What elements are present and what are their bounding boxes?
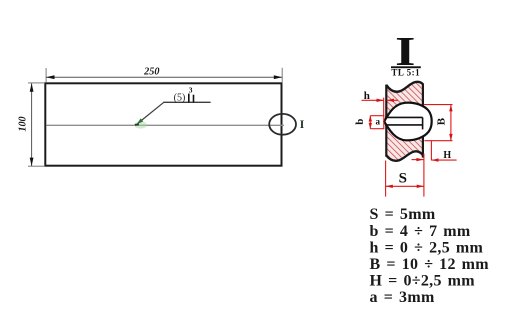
- svg-text:S = 5mm: S = 5mm: [370, 206, 436, 223]
- arrowhead left of 250: [46, 75, 54, 79]
- dimension H extension line: [430, 141, 432, 161]
- dimension S line: [386, 185, 424, 187]
- dimension h arrow right-pointing: [377, 99, 384, 102]
- dimension H arrow left-pointing: [431, 158, 438, 161]
- dimension 100 line: [31, 83, 33, 166]
- weld symbol leader line: [140, 102, 164, 122]
- dimension B arrow top: [449, 105, 452, 112]
- weld symbol bar 1: [188, 94, 190, 103]
- svg-text:a: a: [376, 116, 381, 126]
- plate rectangle: [45, 83, 281, 165]
- arrowhead right of 250: [274, 75, 282, 79]
- dimension b extension right: [383, 116, 385, 129]
- plate left edge: [385, 85, 387, 157]
- arrowhead bottom of 100: [30, 158, 34, 166]
- arrowhead top of 100: [30, 83, 34, 91]
- plate right edge: [422, 84, 424, 158]
- dimension H arrow right-pointing: [416, 158, 423, 161]
- svg-text:B: B: [436, 117, 448, 125]
- svg-text:H: H: [443, 150, 451, 161]
- svg-text:(5): (5): [174, 93, 186, 104]
- dimension H right line: [431, 159, 456, 161]
- dimension b line: [369, 116, 371, 129]
- dimension H left line: [412, 159, 424, 161]
- weld symbol arrow tip dark mark: [135, 123, 139, 126]
- weld symbol reference line: [163, 101, 210, 103]
- hatched plate body (clip between wavy edges): [387, 82, 422, 161]
- dimension b box bottom line: [370, 128, 384, 130]
- weld symbol green halo: [134, 121, 147, 128]
- svg-text:I: I: [300, 119, 305, 131]
- dimension 100 extension line bottom: [28, 165, 44, 167]
- svg-text:250: 250: [143, 67, 159, 78]
- svg-text:S: S: [399, 171, 407, 187]
- svg-text:TL 5:1: TL 5:1: [391, 68, 420, 78]
- plate wavy top edge: [386, 82, 423, 92]
- dimension S left extension: [385, 161, 387, 197]
- weld seam line: [46, 124, 284, 126]
- detail callout circle I: [269, 114, 296, 135]
- dimension 100 extension line top: [28, 82, 44, 84]
- dimension B arrow bottom: [449, 134, 452, 141]
- dimension b arrow up: [369, 116, 372, 122]
- svg-text:3: 3: [189, 86, 193, 95]
- svg-text:b: b: [354, 119, 366, 125]
- dimension 250 extension line right: [281, 68, 283, 82]
- weld symbol green arrowhead: [137, 118, 144, 124]
- dimension h arrow left-pointing: [387, 99, 394, 102]
- nugget slot upper line: [385, 116, 423, 118]
- nugget vertical joint line: [422, 117, 424, 129]
- svg-text:a = 3mm: a = 3mm: [370, 289, 435, 306]
- dimension 250 line: [46, 76, 282, 78]
- svg-text:h = 0 ÷ 2,5 mm: h = 0 ÷ 2,5 mm: [370, 239, 484, 256]
- dimension S arrow right: [417, 185, 424, 188]
- dimension B bottom extension: [424, 140, 452, 142]
- dimension h line right part: [387, 99, 398, 101]
- weld nugget (teardrop): [384, 103, 432, 141]
- weld symbol bar 2: [193, 95, 195, 103]
- dimension S right extension: [423, 154, 425, 197]
- dimension b box top line: [370, 115, 384, 117]
- dimension b arrow down: [369, 123, 372, 129]
- dimension B line: [450, 105, 452, 141]
- dimension h extension line: [383, 98, 385, 116]
- nugget slot lower line: [385, 124, 423, 126]
- svg-text:H = 0÷2,5 mm: H = 0÷2,5 mm: [370, 273, 476, 290]
- dimension B top extension: [424, 104, 453, 106]
- dimension S arrow left: [386, 185, 393, 188]
- dimension h line left part: [362, 99, 384, 101]
- svg-text:B = 10 ÷ 12 mm: B = 10 ÷ 12 mm: [370, 256, 490, 273]
- svg-text:100: 100: [18, 116, 29, 131]
- plate wavy bottom edge: [386, 151, 423, 160]
- svg-text:b = 4 ÷ 7 mm: b = 4 ÷ 7 mm: [370, 223, 471, 240]
- dimension 250 extension line left: [45, 68, 47, 82]
- title underline: [391, 66, 421, 68]
